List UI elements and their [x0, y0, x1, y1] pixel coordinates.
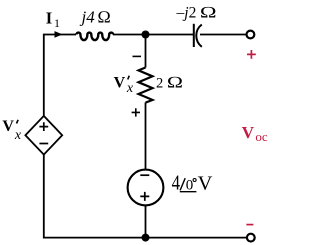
red plus top right: [247, 50, 256, 59]
svg-text:4: 4: [172, 171, 181, 195]
wire inductor to junction to capacitor: [113, 34, 194, 36]
capacitor plate right (curved): [196, 25, 202, 47]
svg-text:oc: oc: [255, 129, 268, 144]
red minus bottom right: [246, 224, 253, 226]
svg-text:Ω: Ω: [167, 74, 184, 92]
plus inside diamond: [39, 122, 48, 131]
svg-text:x: x: [14, 128, 22, 143]
svg-text:V: V: [198, 173, 213, 195]
svg-text:I: I: [46, 8, 52, 27]
svg-text:1: 1: [54, 16, 60, 30]
bottom wire: [44, 237, 247, 239]
svg-text:Ω: Ω: [97, 7, 111, 27]
minus sign above resistor: [133, 55, 142, 57]
wire capacitor to top terminal: [200, 34, 246, 36]
minus inside diamond: [39, 143, 48, 145]
svg-text:V: V: [242, 123, 255, 142]
svg-text:V: V: [114, 74, 126, 91]
wire top-left corner to inductor: [44, 35, 76, 117]
plus sign below resistor: [132, 108, 140, 116]
wire source to bottom junction: [145, 205, 147, 238]
wire junction down to resistor: [145, 35, 147, 68]
svg-text:–j2: –j2: [176, 4, 197, 21]
wire diamond to bottom-left corner: [43, 155, 45, 239]
svg-text:V: V: [2, 118, 14, 135]
dependent source V'x diamond: [25, 116, 62, 155]
svg-text:Ω: Ω: [200, 4, 217, 21]
plus inside source: [140, 192, 149, 201]
inductor j4 ohm: [77, 33, 114, 41]
svg-text:x: x: [126, 81, 134, 96]
resistor 2 ohm: [139, 68, 153, 103]
current arrow: [55, 31, 63, 38]
terminal top right: [247, 31, 255, 39]
node junction dot bottom: [142, 234, 150, 242]
capacitor -j2 ohm plate left: [193, 24, 195, 47]
voltage source 4/0 V circle: [128, 170, 164, 206]
terminal bottom right: [247, 234, 255, 242]
wire resistor to source: [145, 103, 147, 170]
svg-text:2: 2: [156, 76, 163, 92]
node junction dot top: [142, 31, 150, 39]
svg-text:j4: j4: [80, 8, 96, 27]
minus inside source: [140, 174, 149, 176]
